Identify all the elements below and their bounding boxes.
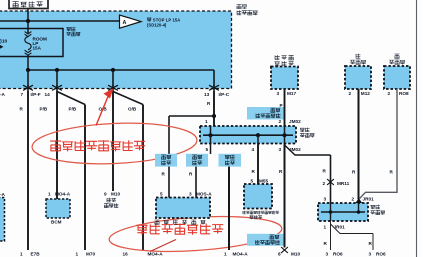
svg-text:16: 16 [123,252,129,257]
svg-text:1: 1 [224,252,227,257]
svg-text:I/P-C: I/P-C [219,92,230,97]
svg-text:(SD120-4): (SD120-4) [147,22,167,27]
svg-text:M17: M17 [287,91,297,96]
svg-text:2: 2 [323,181,326,186]
svg-text:3: 3 [279,147,282,152]
svg-text:O/B: O/B [128,106,137,111]
svg-text:JR01: JR01 [363,197,375,202]
svg-text:M10: M10 [111,192,121,197]
svg-text:M12: M12 [361,91,371,96]
svg-text:RO6: RO6 [333,252,343,257]
svg-text:RO6: RO6 [376,252,386,257]
svg-text:3: 3 [277,91,280,96]
svg-text:M70: M70 [86,252,96,257]
svg-text:3: 3 [369,252,372,257]
svg-text:M55: M55 [259,178,269,183]
svg-text:JM02: JM02 [289,119,301,124]
svg-text:BCM: BCM [51,220,62,225]
svg-text:MO4-A: MO4-A [55,192,71,197]
svg-text:14: 14 [45,92,51,97]
svg-text:3: 3 [324,197,327,202]
svg-text:4: 4 [252,147,255,152]
svg-text:MOS-A: MOS-A [196,191,212,196]
svg-text:P/B: P/B [40,106,48,111]
svg-text:7: 7 [21,92,24,97]
svg-text:3: 3 [189,191,192,196]
svg-text:5: 5 [251,178,254,183]
svg-text:2: 2 [352,197,355,202]
svg-text:A: A [123,20,127,26]
svg-text:1: 1 [20,252,23,257]
svg-text:2: 2 [279,119,282,124]
svg-text:5: 5 [160,191,163,196]
svg-text:M10: M10 [291,252,301,257]
svg-text:8: 8 [278,252,281,257]
svg-text:}10: }10 [0,39,8,45]
svg-text:13: 13 [204,92,210,97]
svg-text:E7B: E7B [31,252,41,257]
svg-text:RO8: RO8 [399,91,409,96]
svg-text:1: 1 [205,119,208,124]
svg-text:-A: -A [0,92,6,97]
svg-text:2: 2 [388,91,391,96]
svg-text:3: 3 [326,252,329,257]
svg-text:1: 1 [48,192,51,197]
svg-text:9: 9 [104,192,107,197]
svg-text:MR11: MR11 [337,181,350,186]
svg-text:P: P [280,103,283,108]
svg-text:5: 5 [206,147,209,152]
svg-text:MO4-A: MO4-A [148,252,164,257]
svg-text:15A: 15A [33,46,42,51]
svg-text:MO4-A: MO4-A [233,252,249,257]
svg-text:1: 1 [324,224,327,229]
svg-text:2: 2 [349,91,352,96]
svg-text:-A: -A [0,192,6,197]
svg-text:P/B: P/B [69,106,77,111]
svg-text:1: 1 [76,252,79,257]
svg-text:I/P-F: I/P-F [31,92,41,97]
